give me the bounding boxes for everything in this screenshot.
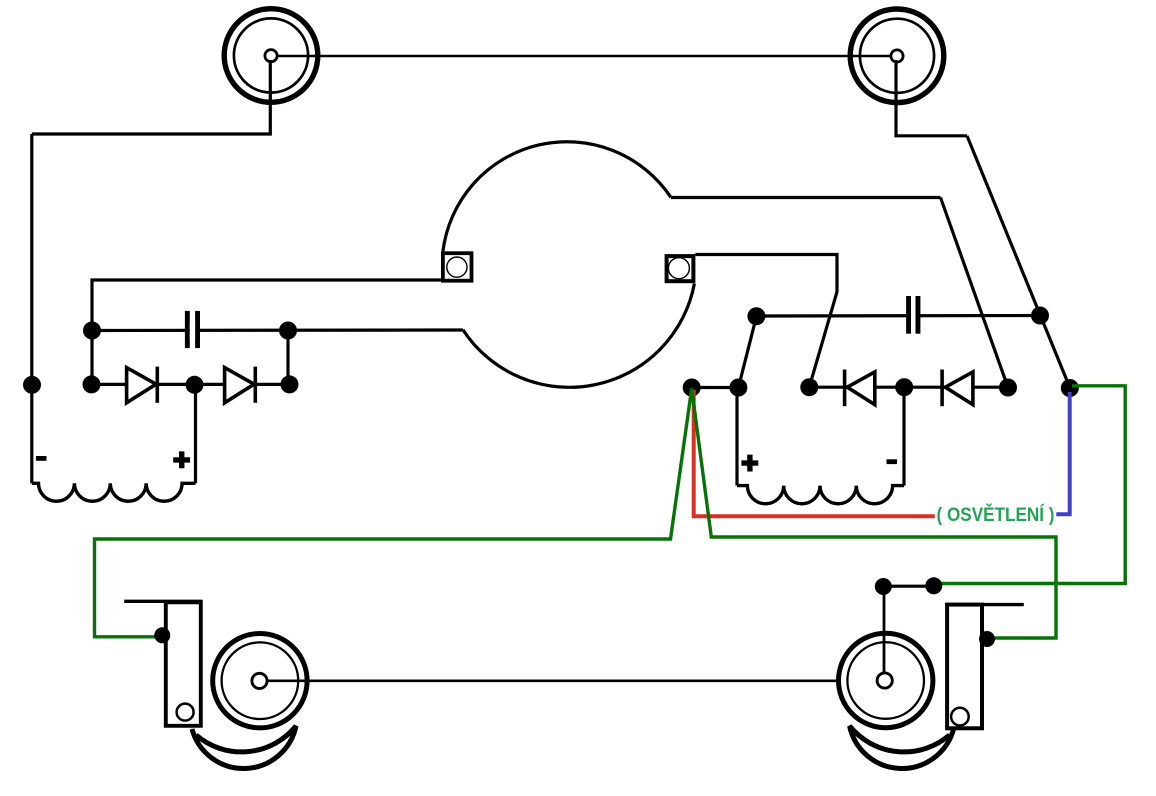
wire green switch feed [942, 386, 1126, 584]
wire cap to diode row [286, 331, 289, 385]
diode D2 [225, 367, 256, 403]
capacitor C2 [906, 296, 920, 334]
node dot junction main [683, 379, 701, 397]
label minus left [36, 456, 47, 461]
bell B2 gong [839, 633, 933, 727]
lamp/horn L1 top-left [224, 9, 318, 103]
lamp L1 hub [265, 50, 277, 62]
wire green bus right [692, 389, 1056, 639]
bell B2 screw [951, 708, 969, 726]
wire right capacitor line [756, 314, 1040, 318]
bell B1 resonator crescent [192, 726, 296, 769]
svg-text:( OSVĚTLENÍ ): ( OSVĚTLENÍ ) [937, 504, 1055, 526]
node dot cap right a [747, 307, 765, 325]
wire coil plus drop [194, 384, 197, 483]
generator coil right [737, 486, 904, 504]
node dot green right bell [979, 631, 995, 647]
node dot cap left a [83, 322, 101, 340]
diode D3 [845, 370, 875, 407]
wire blue feed [1056, 392, 1069, 514]
lamp L2 hub [891, 50, 903, 62]
wire L2 down [896, 60, 967, 136]
node dot diode row left a [83, 375, 101, 393]
magneto flywheel bottom arc [463, 284, 695, 388]
bell B1 bracket stub [124, 600, 202, 603]
contact breaker right [667, 256, 694, 281]
label plus right [741, 455, 758, 472]
wire bell-to-bell [260, 679, 884, 682]
wire right breaker out [695, 255, 837, 388]
wire right coil plus drop [735, 388, 738, 486]
wire bell B2 top drop [883, 587, 886, 677]
bell B1 bracket [166, 602, 201, 726]
node dot diode row left c [281, 375, 299, 393]
wire dot link top right [883, 585, 934, 588]
node dot diode row right b [895, 378, 913, 396]
wire L1 down [32, 60, 270, 134]
node dot diode row right a [800, 378, 818, 396]
wire left arm upper [92, 280, 441, 384]
node dot switch upper [1031, 307, 1049, 325]
node dot diode row left b [186, 376, 204, 394]
contact breaker left [443, 253, 472, 281]
node dot cap left b [279, 322, 297, 340]
wire diagonal to switch [967, 136, 1070, 388]
node dot bell feed b [925, 577, 942, 594]
wire red feed [694, 390, 935, 516]
label minus right [887, 459, 898, 464]
bell B2 resonator crescent [850, 726, 954, 769]
node dot left vertical [23, 376, 41, 394]
node dot junction b [729, 379, 747, 397]
wire junction link [692, 386, 739, 389]
wire diode row right [809, 386, 1008, 389]
node dot diode row right c [999, 379, 1017, 397]
magneto flywheel top arc [443, 142, 671, 252]
bell B2 hub [877, 673, 892, 688]
wire diode row left [92, 383, 290, 386]
wire lamp-to-lamp [271, 55, 897, 58]
lamp/horn L2 top-right [850, 9, 944, 103]
wire diagonal arm to diode row [941, 198, 1009, 388]
bell B2 bracket stub [945, 603, 1024, 606]
bell B1 hub [252, 673, 267, 688]
bell B2 bracket [947, 605, 982, 729]
node dot bell feed a [875, 578, 892, 595]
wire right arm upper [671, 196, 941, 199]
bell B1 gong [213, 634, 307, 728]
bell B1 screw [177, 704, 194, 721]
wire diagonal to capacitor line [738, 317, 756, 388]
generator coil left [32, 483, 196, 501]
node dot green left bell [154, 627, 170, 643]
wire green bus left [95, 389, 692, 637]
diode D1 [127, 367, 158, 403]
label plus left [173, 451, 190, 468]
diode D4 [942, 370, 973, 407]
node dot switch lower [1061, 379, 1079, 397]
wire left capacitor line [92, 328, 463, 332]
capacitor C1 [185, 311, 200, 348]
wire right coil minus drop [902, 387, 905, 485]
wire left vertical [30, 134, 33, 483]
